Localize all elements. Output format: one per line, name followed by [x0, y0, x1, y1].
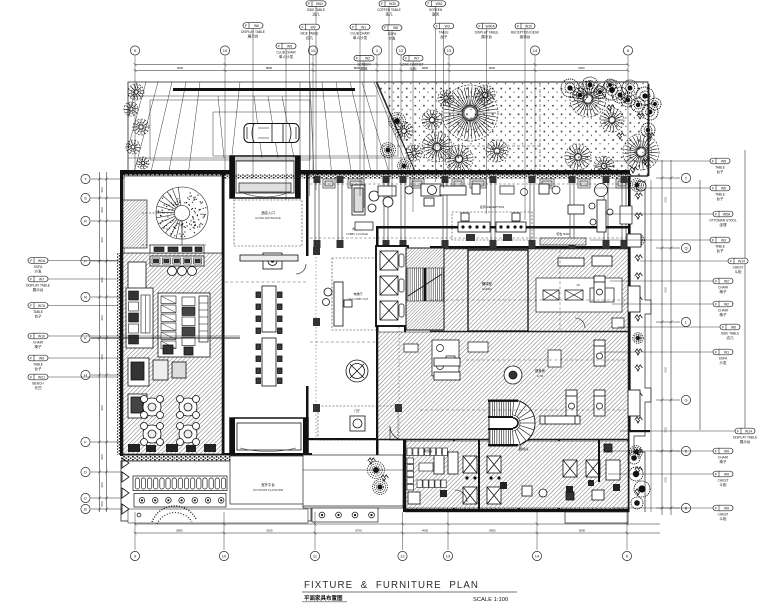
right hatched block mid	[378, 332, 628, 439]
plant mark	[630, 167, 638, 173]
svg-text:坐堽: 坐堽	[719, 222, 727, 227]
bar label box	[540, 238, 586, 245]
elevator shafts	[376, 246, 408, 326]
svg-text:SCREEN: SCREEN	[357, 63, 371, 67]
svg-text:W14: W14	[745, 429, 752, 433]
svg-text:TABLE: TABLE	[715, 165, 725, 169]
right hatched block upper	[430, 249, 628, 331]
svg-text:12: 12	[400, 554, 405, 559]
plant mark	[635, 297, 643, 303]
grid bubble N	[81, 292, 90, 301]
callout W5 TABLE	[710, 158, 730, 174]
grid bubble 13	[444, 46, 453, 55]
svg-text:CLUB CHAIR: CLUB CHAIR	[276, 50, 296, 54]
tree	[422, 132, 452, 162]
svg-text:LOBBY LOUNGE: LOBBY LOUNGE	[346, 232, 368, 236]
svg-text:W2: W2	[724, 302, 729, 306]
svg-text:展示台: 展示台	[740, 439, 751, 444]
outdoor platform label area	[230, 456, 310, 504]
grid bubble 9	[130, 551, 139, 560]
grid bubble 11	[308, 46, 317, 55]
grid bubble B	[81, 504, 90, 513]
right exterior wall upper	[648, 84, 649, 176]
callout W2 CHAIR	[713, 301, 733, 317]
svg-text:F: F	[715, 472, 717, 476]
svg-text:3600: 3600	[101, 405, 104, 411]
svg-text:GAMES: GAMES	[482, 287, 492, 291]
car	[244, 124, 299, 143]
reception bar tables	[240, 253, 298, 386]
shrub	[381, 143, 396, 158]
svg-text:展示台: 展示台	[248, 34, 259, 39]
hotel entrance dashed zone	[234, 200, 302, 246]
shrub	[631, 179, 644, 192]
svg-text:TABLE: TABLE	[715, 244, 725, 248]
svg-text:4200: 4200	[665, 427, 668, 433]
svg-text:按摩房: 按摩房	[519, 446, 528, 451]
left zone furniture	[126, 256, 210, 418]
svg-text:LIFT LOBBY OUT: LIFT LOBBY OUT	[348, 297, 369, 301]
left edge planting triangles	[122, 458, 129, 468]
svg-text:P: P	[84, 259, 87, 264]
tree	[442, 85, 498, 141]
svg-text:3600: 3600	[101, 354, 104, 360]
svg-text:台子: 台子	[716, 169, 724, 174]
svg-text:展示台: 展示台	[33, 287, 44, 292]
svg-text:W9: W9	[724, 506, 729, 510]
svg-text:边几: 边几	[726, 335, 734, 340]
grid bubble 6	[622, 551, 631, 560]
svg-text:W1A: W1A	[38, 259, 46, 263]
tree	[475, 85, 495, 105]
plant mark	[635, 449, 643, 455]
svg-text:F: F	[712, 159, 714, 163]
dimension lines	[100, 65, 746, 534]
building facade wall	[120, 170, 230, 175]
svg-text:沙发: 沙发	[719, 360, 727, 365]
svg-text:8800: 8800	[266, 66, 273, 70]
svg-text:酒店入口: 酒店入口	[261, 210, 275, 215]
svg-text:接待 RECEPTION: 接待 RECEPTION	[480, 204, 504, 209]
tree	[623, 134, 659, 170]
bench row below stair	[150, 245, 204, 253]
plant mark	[635, 393, 643, 399]
grid bubble H	[81, 370, 90, 379]
left lounge hatched zone	[123, 253, 222, 454]
svg-text:F: F	[352, 25, 354, 29]
grid bubble 6	[623, 46, 632, 55]
callout W2 CHAIR	[713, 278, 733, 294]
svg-text:电梯厅: 电梯厅	[353, 291, 362, 296]
grid bubble P	[81, 256, 90, 265]
corridor display cabinets along facade	[323, 179, 628, 188]
tree	[406, 145, 422, 161]
svg-text:W62: W62	[436, 2, 443, 6]
grid bubble 14	[532, 551, 541, 560]
callout W7 OAK CABINET	[402, 55, 423, 71]
svg-text:CHAIR: CHAIR	[33, 340, 44, 344]
svg-text:4600: 4600	[422, 529, 429, 533]
svg-text:Q: Q	[684, 246, 687, 251]
left callouts	[49, 260, 119, 262]
svg-text:W6: W6	[254, 24, 259, 28]
callout W9 CHEST	[713, 505, 733, 521]
lower entrance vestibule	[230, 418, 308, 455]
svg-text:3600: 3600	[101, 237, 104, 243]
plant mark	[635, 349, 643, 355]
svg-text:3600: 3600	[101, 207, 104, 213]
svg-text:W9: W9	[724, 472, 729, 476]
svg-text:台子: 台子	[716, 248, 724, 253]
grid bubble 12	[396, 46, 405, 55]
svg-text:W10: W10	[38, 334, 45, 338]
hedge fan arcs	[128, 509, 308, 523]
bottom-right corner foliage	[628, 452, 650, 509]
shrub	[630, 446, 643, 459]
callout W9 SIDE TABLE	[300, 24, 320, 40]
grid bubble G	[681, 395, 690, 404]
right callouts	[600, 160, 710, 162]
svg-text:SCALE 1:100: SCALE 1:100	[473, 597, 508, 603]
plant mark	[635, 417, 643, 423]
svg-text:SIDE TABLE: SIDE TABLE	[721, 331, 739, 335]
callout W5 TABLE	[710, 185, 730, 201]
svg-text:DISPLAY TABLE: DISPLAY TABLE	[475, 30, 499, 34]
svg-text:4200: 4200	[665, 477, 668, 483]
svg-text:9000: 9000	[177, 66, 184, 70]
grid bubble 14	[530, 46, 539, 55]
svg-text:边几: 边几	[312, 12, 320, 17]
svg-text:W30: W30	[389, 2, 396, 6]
tree	[126, 140, 140, 154]
svg-text:D: D	[84, 470, 87, 475]
grid bubble 9	[130, 46, 139, 55]
door arcs	[296, 264, 585, 502]
svg-text:接待台: 接待台	[520, 34, 531, 39]
svg-text:W2: W2	[724, 279, 729, 283]
hotel entrance vestibule	[230, 156, 300, 198]
svg-text:12: 12	[399, 48, 404, 53]
svg-text:SIDE TABLE: SIDE TABLE	[307, 8, 325, 12]
svg-text:GYM: GYM	[537, 374, 544, 378]
ramp structure lines	[128, 82, 417, 176]
tree	[438, 90, 454, 106]
svg-text:W7: W7	[39, 277, 44, 281]
svg-text:3600: 3600	[101, 454, 104, 460]
callout W2 SCREEN	[354, 55, 374, 71]
svg-text:W3: W3	[721, 238, 726, 242]
plant mark	[617, 133, 625, 139]
plant mark	[637, 113, 645, 119]
svg-text:F: F	[436, 24, 438, 28]
callout W9 CHAIR	[713, 448, 733, 464]
callout W5A OTTOMAN STOOL	[709, 211, 737, 227]
svg-text:椅子: 椅子	[719, 312, 727, 317]
svg-text:椅子: 椅子	[719, 289, 727, 294]
shrub	[373, 480, 388, 495]
callout W10 RECEPTION DESK	[511, 23, 540, 39]
svg-text:9000: 9000	[579, 529, 586, 533]
callout W10 CHAIR	[28, 333, 48, 349]
right hatched block spa	[406, 441, 628, 508]
svg-text:14: 14	[533, 48, 538, 53]
svg-text:F: F	[30, 334, 32, 338]
grid bubble 11	[310, 551, 319, 560]
svg-text:屏风: 屏风	[360, 67, 368, 71]
svg-text:8700: 8700	[355, 529, 362, 533]
tree	[124, 102, 138, 116]
garden mid dashed path	[382, 145, 540, 147]
svg-text:TABLE: TABLE	[33, 310, 43, 314]
svg-text:OTTOMAN STOOL: OTTOMAN STOOL	[709, 218, 737, 222]
tree	[600, 108, 624, 132]
svg-text:CHAIR: CHAIR	[718, 285, 729, 289]
svg-text:F: F	[715, 506, 717, 510]
svg-text:SOFA: SOFA	[34, 265, 43, 269]
lobby column grid dotted lines	[315, 250, 317, 440]
svg-text:屏风: 屏风	[432, 13, 440, 17]
svg-text:室外平台: 室外平台	[261, 482, 275, 487]
svg-text:沙发: 沙发	[388, 36, 396, 41]
round tables left	[141, 396, 164, 419]
callout W7A TABLE	[28, 303, 48, 319]
grid bubble E	[681, 446, 690, 455]
grid bubble L	[681, 317, 690, 326]
svg-text:W5: W5	[287, 44, 292, 48]
svg-text:3600: 3600	[101, 315, 104, 321]
callout W3 TABLE	[710, 237, 730, 253]
callout W62 SIDE TABLE	[306, 1, 326, 17]
washroom white inner	[432, 340, 459, 376]
svg-text:W5: W5	[721, 159, 726, 163]
svg-text:平面家具布置图: 平面家具布置图	[304, 594, 343, 602]
lobby mat dashed	[318, 406, 398, 440]
svg-text:斗柜: 斗柜	[719, 482, 727, 487]
svg-text:长凹: 长凹	[34, 385, 42, 390]
svg-text:F: F	[715, 449, 717, 453]
svg-text:F: F	[517, 24, 519, 28]
plant mark	[635, 255, 643, 261]
svg-text:展示台: 展示台	[481, 34, 492, 39]
plant mark	[607, 105, 615, 111]
tree	[133, 119, 149, 135]
svg-text:F: F	[30, 277, 32, 281]
svg-text:台子: 台子	[34, 314, 42, 319]
plant mark	[622, 97, 630, 103]
callout W6 DISPLAY TABLE	[241, 23, 265, 39]
driveway ramp area outline	[128, 82, 417, 176]
KTV room inner	[468, 250, 528, 331]
escape stair	[406, 248, 444, 330]
grid bubble D	[81, 467, 90, 476]
facade bumps right	[627, 234, 641, 416]
svg-text:单人沙发: 单人沙发	[353, 35, 368, 40]
D-shaped stair	[488, 400, 535, 447]
grid bubble K	[81, 333, 90, 342]
plant mark	[381, 475, 389, 481]
svg-text:C: C	[84, 496, 87, 501]
svg-text:边几: 边几	[306, 35, 314, 40]
svg-text:台子: 台子	[716, 196, 724, 201]
svg-text:W30A: W30A	[485, 24, 495, 28]
svg-text:HOTEL ENTRANCE: HOTEL ENTRANCE	[255, 216, 281, 220]
svg-text:F: F	[428, 2, 430, 6]
feature table	[346, 360, 368, 382]
outdoor platform	[121, 456, 311, 461]
games room white inner	[536, 278, 622, 312]
svg-text:DISPLAY TABLE: DISPLAY TABLE	[733, 435, 757, 439]
svg-text:F: F	[712, 238, 714, 242]
shrub	[368, 462, 385, 479]
tree	[570, 81, 606, 117]
svg-text:W10: W10	[525, 24, 532, 28]
svg-text:F: F	[722, 325, 724, 329]
tree	[395, 122, 413, 140]
callout W3 TABLE	[434, 23, 454, 39]
svg-text:W8: W8	[393, 26, 398, 30]
svg-text:F: F	[479, 24, 481, 28]
grid bubble 1	[372, 46, 381, 55]
corridor columns	[314, 176, 321, 248]
svg-text:K: K	[84, 336, 87, 341]
spiral stair room	[124, 176, 222, 253]
svg-text:8900: 8900	[176, 529, 183, 533]
svg-text:F: F	[715, 212, 717, 216]
svg-text:4200: 4200	[665, 367, 668, 373]
svg-text:F: F	[301, 25, 303, 29]
club lounge furniture top-right	[428, 181, 647, 232]
svg-text:F: F	[308, 2, 310, 6]
svg-text:TABLE: TABLE	[33, 362, 43, 366]
svg-text:3600: 3600	[101, 482, 104, 488]
svg-text:3600: 3600	[101, 501, 104, 507]
svg-text:S: S	[84, 196, 87, 201]
svg-text:9100: 9100	[266, 529, 273, 533]
svg-text:F: F	[715, 350, 717, 354]
svg-text:W7A: W7A	[38, 304, 46, 308]
svg-text:W14: W14	[738, 259, 745, 263]
svg-text:3600: 3600	[101, 277, 104, 283]
svg-text:8600: 8600	[489, 66, 496, 70]
bottom grid leaders	[134, 512, 629, 550]
shrub	[389, 113, 406, 130]
svg-text:棚球室: 棚球室	[482, 281, 493, 286]
svg-text:OUTDOOR PLATFORM: OUTDOOR PLATFORM	[253, 488, 284, 492]
svg-text:RECEPTION DESK: RECEPTION DESK	[511, 30, 540, 34]
kitchen counters bottom-left room	[407, 448, 447, 490]
svg-text:吧台 BAR: 吧台 BAR	[556, 231, 570, 236]
svg-text:CLUB CHAIR: CLUB CHAIR	[350, 31, 370, 35]
callout W14 CHEST	[728, 258, 748, 274]
svg-text:F: F	[730, 259, 732, 263]
grid bubble F	[81, 437, 90, 446]
svg-text:3600: 3600	[101, 187, 104, 193]
top grid leaders	[134, 56, 630, 176]
tree	[445, 145, 473, 173]
grid bubble T	[81, 174, 90, 183]
shrub	[634, 235, 645, 246]
svg-text:9300: 9300	[578, 66, 585, 70]
right stepped terrace outline	[634, 180, 651, 512]
svg-text:F: F	[384, 26, 386, 30]
grid bubble T	[681, 173, 690, 182]
reception desks	[452, 212, 532, 240]
left exterior wall	[120, 170, 123, 456]
callout W30A DISPLAY TABLE	[475, 23, 499, 39]
callout W8 SOFA	[382, 25, 402, 41]
tree	[128, 84, 144, 100]
svg-text:台子: 台子	[34, 366, 42, 371]
svg-text:斗柜: 斗柜	[734, 269, 742, 274]
svg-text:椅子: 椅子	[34, 344, 42, 349]
svg-text:W7: W7	[414, 57, 419, 61]
grid bubble 12	[398, 551, 407, 560]
svg-text:椅子: 椅子	[719, 459, 727, 464]
svg-text:W9: W9	[39, 356, 44, 360]
bottom exterior wall	[405, 509, 629, 512]
svg-text:SOFA: SOFA	[388, 32, 397, 36]
svg-text:14: 14	[535, 554, 540, 559]
right lower terrace	[303, 455, 403, 508]
svg-text:W9: W9	[724, 449, 729, 453]
callout W1A SOFA	[28, 258, 48, 274]
lift lobby dashed	[332, 258, 376, 330]
grid bubble 10	[219, 551, 228, 560]
svg-text:CHEST: CHEST	[733, 265, 744, 269]
grid bubble 10	[220, 46, 229, 55]
svg-text:R: R	[84, 219, 87, 224]
dimension numbers	[176, 66, 585, 533]
svg-text:SOFA: SOFA	[719, 356, 728, 360]
balustrade	[133, 476, 227, 491]
callout W1 CLUB CHAIR	[350, 24, 370, 40]
svg-text:F: F	[737, 429, 739, 433]
plant mark	[635, 315, 643, 321]
tree	[565, 144, 591, 170]
internal walls	[120, 174, 629, 512]
shrub	[633, 333, 644, 344]
svg-text:BENCH: BENCH	[32, 381, 44, 385]
svg-text:F: F	[278, 44, 280, 48]
callout W30 COFFEE TABLE	[377, 1, 401, 17]
plant mark	[635, 489, 643, 495]
plant mark	[635, 467, 643, 473]
svg-text:F: F	[381, 2, 383, 6]
callout W14 DISPLAY TABLE	[733, 428, 757, 444]
spiral staircase	[142, 187, 208, 253]
svg-text:F: F	[30, 259, 32, 263]
plant mark	[635, 193, 643, 199]
svg-text:13: 13	[576, 283, 580, 287]
svg-text:单人沙发: 单人沙发	[279, 54, 294, 59]
plant mark	[642, 159, 650, 165]
svg-text:斗柜: 斗柜	[719, 516, 727, 521]
callout W21 BENCH	[28, 374, 48, 390]
grid bubble C	[81, 493, 90, 502]
svg-text:沙发: 沙发	[34, 269, 42, 274]
svg-text:按摩房: 按摩房	[423, 448, 432, 453]
svg-text:F: F	[30, 356, 32, 360]
svg-text:F: F	[715, 279, 717, 283]
svg-text:W62: W62	[316, 2, 323, 6]
svg-text:斗柜: 斗柜	[409, 66, 417, 71]
svg-text:10: 10	[222, 554, 227, 559]
svg-text:CHEST: CHEST	[718, 478, 729, 482]
callout W9 TABLE	[28, 355, 48, 371]
svg-text:W2: W2	[365, 57, 370, 61]
grid bubble B	[681, 503, 690, 512]
svg-text:F: F	[356, 57, 358, 61]
